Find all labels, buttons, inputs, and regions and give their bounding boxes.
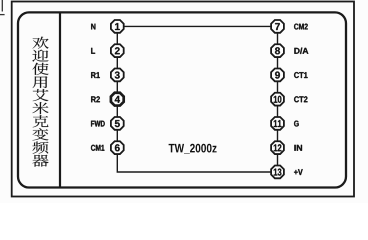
terminal 1 [111,20,124,33]
label FWD [91,121,105,127]
wire left bus (terminals 1-6 down to corner) [117,26,277,172]
divider line [59,12,61,187]
label TW_2000z [169,144,217,154]
inverter body outline [18,12,346,187]
label R2 [91,96,100,102]
terminal 2 [111,44,124,57]
outer border frame [12,2,354,197]
wire top bus (terminal 1 to 7) [117,25,277,27]
wire (scan corner mark) [0,0,5,15]
terminal 10 [271,93,284,106]
label CM2 [294,24,308,30]
terminal 7 [271,20,284,33]
terminal 9 [271,69,284,82]
label IN [294,145,302,151]
label N [91,24,95,30]
label CT1 [294,72,308,78]
terminal 4 [111,93,124,106]
label G [294,121,299,127]
label D/A [294,48,308,54]
terminal 8 [271,44,284,57]
label CT2 [294,96,307,102]
label CM1 [91,145,104,151]
terminal 3 [111,69,124,82]
wire right bus (terminals 7-13) [277,26,279,172]
terminal 11 [271,117,284,130]
caption 欢迎使用艾米克变频器 [32,37,48,167]
terminal 5 [111,117,124,130]
label +V [294,169,303,175]
terminal 12 [271,141,284,154]
label L [91,48,95,54]
label R1 [91,72,100,78]
terminal 13 [271,166,284,179]
terminal 6 [111,141,124,154]
